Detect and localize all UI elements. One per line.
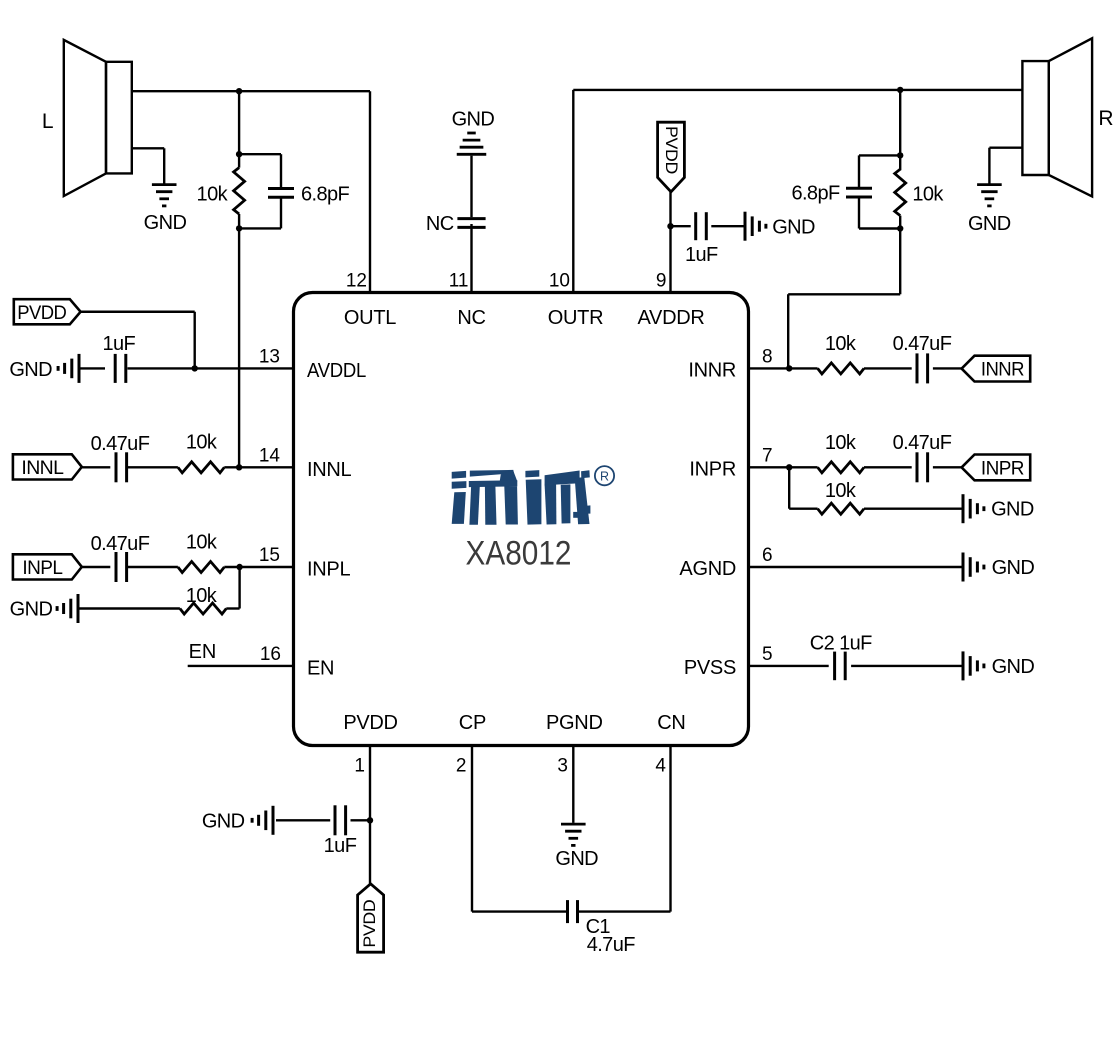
svg-text:GND: GND <box>452 108 495 130</box>
svg-text:GND: GND <box>555 848 598 870</box>
svg-text:AGND: AGND <box>679 558 736 580</box>
svg-text:OUTR: OUTR <box>548 307 603 329</box>
svg-text:NC: NC <box>457 307 485 329</box>
svg-text:10k: 10k <box>186 585 218 607</box>
svg-text:R: R <box>1098 107 1113 130</box>
svg-text:INPL: INPL <box>307 559 350 581</box>
svg-text:4.7uF: 4.7uF <box>587 934 636 956</box>
svg-text:CP: CP <box>459 712 486 734</box>
svg-text:10k: 10k <box>825 432 857 454</box>
svg-text:6: 6 <box>762 545 773 566</box>
svg-text:GND: GND <box>991 499 1034 521</box>
svg-text:0.47uF: 0.47uF <box>91 533 150 555</box>
svg-text:GND: GND <box>10 599 53 621</box>
svg-text:GND: GND <box>772 217 815 239</box>
svg-text:C2 1uF: C2 1uF <box>810 633 872 655</box>
svg-text:10: 10 <box>549 271 570 292</box>
svg-text:CN: CN <box>657 712 685 734</box>
svg-text:EN: EN <box>189 641 217 663</box>
svg-text:PGND: PGND <box>546 712 603 734</box>
svg-text:1uF: 1uF <box>324 835 357 857</box>
svg-text:4: 4 <box>655 756 666 777</box>
svg-text:10k: 10k <box>825 480 857 502</box>
svg-text:OUTL: OUTL <box>344 307 396 329</box>
svg-text:GND: GND <box>968 213 1011 235</box>
svg-text:GND: GND <box>992 656 1035 678</box>
svg-text:10k: 10k <box>912 184 944 206</box>
svg-text:INPR: INPR <box>689 458 736 480</box>
svg-text:R: R <box>600 470 609 484</box>
svg-text:10k: 10k <box>825 333 857 355</box>
svg-text:GND: GND <box>144 212 187 234</box>
svg-text:GND: GND <box>992 557 1035 579</box>
svg-text:PVSS: PVSS <box>684 657 736 679</box>
svg-text:L: L <box>42 110 54 133</box>
svg-text:AVDDL: AVDDL <box>307 360 366 382</box>
svg-text:10k: 10k <box>186 432 218 454</box>
svg-text:13: 13 <box>259 346 280 367</box>
svg-text:GND: GND <box>9 359 52 381</box>
svg-text:INPR: INPR <box>981 457 1024 479</box>
svg-text:INNR: INNR <box>981 359 1024 381</box>
svg-text:INNR: INNR <box>688 359 736 381</box>
svg-text:5: 5 <box>762 644 773 665</box>
svg-text:12: 12 <box>346 271 367 292</box>
svg-text:GND: GND <box>202 811 245 833</box>
svg-text:XA8012: XA8012 <box>466 535 572 573</box>
svg-text:AVDDR: AVDDR <box>637 307 704 329</box>
svg-text:8: 8 <box>762 346 773 367</box>
svg-text:16: 16 <box>260 644 281 665</box>
svg-text:PVDD: PVDD <box>662 126 681 174</box>
svg-text:INPL: INPL <box>22 557 63 579</box>
svg-text:15: 15 <box>259 545 280 566</box>
svg-text:INNL: INNL <box>21 457 64 479</box>
svg-text:1uF: 1uF <box>685 244 718 266</box>
svg-text:1: 1 <box>354 756 365 777</box>
svg-text:2: 2 <box>456 756 467 777</box>
svg-text:PVDD: PVDD <box>17 302 66 324</box>
svg-text:0.47uF: 0.47uF <box>893 333 952 355</box>
svg-text:10k: 10k <box>197 184 229 206</box>
svg-text:0.47uF: 0.47uF <box>91 433 150 455</box>
svg-text:INNL: INNL <box>307 459 352 481</box>
svg-text:7: 7 <box>762 445 773 466</box>
svg-text:6.8pF: 6.8pF <box>301 184 350 206</box>
svg-text:NC: NC <box>426 213 454 235</box>
svg-text:14: 14 <box>259 445 281 466</box>
svg-text:0.47uF: 0.47uF <box>893 432 952 454</box>
svg-text:1uF: 1uF <box>102 333 135 355</box>
svg-text:3: 3 <box>557 756 568 777</box>
svg-text:10k: 10k <box>186 532 218 554</box>
svg-text:6.8pF: 6.8pF <box>791 182 840 204</box>
svg-text:EN: EN <box>307 658 334 680</box>
svg-text:PVDD: PVDD <box>360 900 379 948</box>
svg-text:11: 11 <box>449 271 469 292</box>
svg-text:9: 9 <box>656 271 667 292</box>
svg-text:PVDD: PVDD <box>343 712 397 734</box>
